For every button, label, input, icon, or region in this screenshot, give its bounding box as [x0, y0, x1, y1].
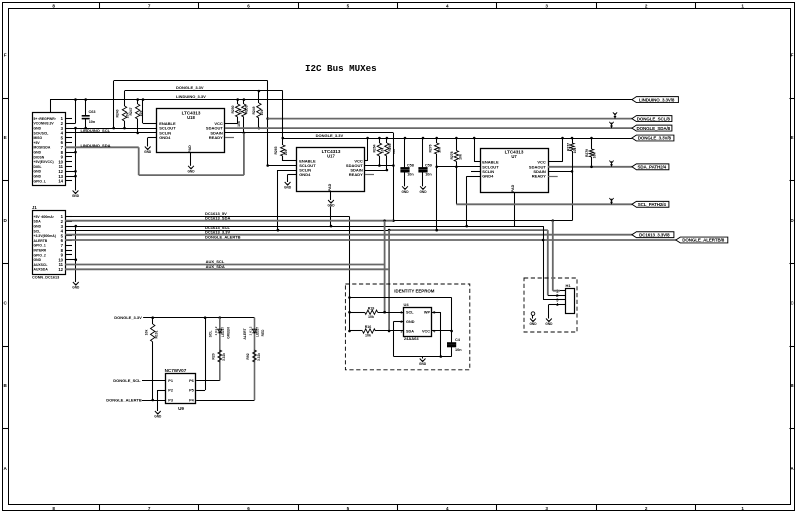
- svg-text:LED17: LED17: [221, 327, 225, 337]
- svg-text:SCK/SCL: SCK/SCL: [34, 131, 49, 135]
- wire U18 ENABLE to 3.3V: [143, 100, 158, 124]
- resistor R265: [385, 138, 396, 171]
- ground C58: [401, 186, 409, 194]
- svg-text:VCONN/3.3V: VCONN/3.3V: [34, 122, 55, 126]
- wire AUX_SCL vertical to EEPROM: [383, 221, 386, 314]
- svg-text:DONGLE_3.3V/8: DONGLE_3.3V/8: [638, 136, 672, 141]
- svg-text:R277: R277: [567, 143, 571, 151]
- svg-text:DONGLE_3.3V: DONGLE_3.3V: [316, 133, 344, 138]
- svg-text:MOSI/SDA: MOSI/SDA: [34, 146, 51, 150]
- wire U17 VCC up: [365, 138, 368, 161]
- wire U7 SCLIN stub: [471, 171, 480, 173]
- svg-text:2: 2: [645, 4, 648, 9]
- wire U4 GND pin2: [394, 321, 404, 356]
- svg-text:SDA: SDA: [406, 329, 414, 333]
- LED LED17 green chain: [209, 318, 231, 381]
- resistor R16: [350, 325, 404, 338]
- wire U18 SDAIN row to riser: [225, 133, 395, 223]
- flag LINDUINO_3.3V/8: [632, 97, 679, 103]
- wire U18 GND4: [148, 138, 158, 147]
- svg-text:DONGLE_ALERTB: DONGLE_ALERTB: [205, 235, 241, 240]
- wire U18 READY stub: [225, 137, 234, 139]
- svg-text:F: F: [4, 52, 7, 57]
- resistor R277: [567, 138, 578, 173]
- svg-text:+5V: +5V: [34, 141, 41, 145]
- svg-text:7: 7: [148, 506, 151, 511]
- svg-text:R263: R263: [274, 146, 278, 154]
- wire U18 PAD to ground: [190, 153, 192, 166]
- wire U17 SCLIN to DC1613_SCL: [277, 170, 297, 231]
- ground U17 PAD: [327, 200, 335, 208]
- ground U9 P2: [154, 411, 162, 419]
- ground testpoint: [529, 319, 537, 327]
- svg-text:3: 3: [545, 506, 548, 511]
- svg-text:GND4: GND4: [159, 135, 171, 140]
- svg-text:GND: GND: [154, 415, 162, 419]
- ground EEPROM: [419, 359, 427, 367]
- svg-text:10k: 10k: [392, 149, 396, 154]
- wire U17 PAD: [330, 191, 333, 227]
- flag DONGLE_SCL/8: [632, 116, 672, 122]
- svg-text:R20: R20: [212, 353, 216, 359]
- svg-text:R276: R276: [429, 144, 433, 152]
- svg-text:GND: GND: [419, 190, 427, 194]
- svg-text:GND: GND: [529, 322, 537, 326]
- wire U7 PAD down: [514, 192, 516, 226]
- svg-text:SDA: SDA: [34, 220, 42, 224]
- svg-text:E: E: [4, 135, 7, 140]
- svg-text:3.32k: 3.32k: [257, 353, 261, 361]
- wire Linduino pin2 to 3.3V: [72, 100, 76, 124]
- wire H1 pin1 from DC1613_SDA: [553, 221, 560, 291]
- resistor R264: [372, 138, 384, 167]
- svg-text:R19: R19: [368, 306, 375, 310]
- net DC1613_5V wire: [65, 217, 351, 332]
- resistor R251: [237, 100, 249, 135]
- net AUX_SDA wire: [65, 268, 389, 270]
- svg-text:DC1613_SDA: DC1613_SDA: [205, 215, 230, 220]
- svg-text:1 K1.2: 1 K1.2: [249, 326, 253, 335]
- svg-text:SCL: SCL: [34, 229, 41, 233]
- svg-text:PAD: PAD: [188, 145, 192, 153]
- svg-text:4: 4: [446, 506, 449, 511]
- flag DC1613_3.3V/8: [632, 232, 674, 238]
- svg-text:R249: R249: [252, 106, 256, 114]
- wire DONGLE_SCL into P1: [142, 380, 166, 382]
- svg-text:10k: 10k: [145, 330, 149, 336]
- ground U17 GND4: [284, 182, 292, 190]
- svg-text:3: 3: [545, 4, 548, 9]
- svg-text:LED27: LED27: [256, 327, 260, 337]
- svg-text:10n: 10n: [425, 172, 432, 176]
- svg-text:AUXSDA: AUXSDA: [34, 268, 49, 272]
- svg-text:AUX_SDA: AUX_SDA: [206, 264, 225, 269]
- flag DONGLE_ALERTB/8: [676, 237, 728, 243]
- svg-text:P6: P6: [189, 379, 194, 383]
- svg-text:READY: READY: [532, 174, 546, 179]
- svg-text:GND: GND: [34, 258, 42, 262]
- buffer U9 NC7WV07: [165, 368, 196, 411]
- svg-text:DIOSN: DIOSN: [34, 155, 45, 159]
- svg-text:10k: 10k: [260, 110, 264, 116]
- wire EEPROM top rail: [348, 298, 453, 343]
- net DONGLE_SDA wire: [225, 127, 632, 129]
- wire H1 pin2 from DC1613_SCL: [548, 295, 560, 297]
- svg-text:DONGLE_SDA/8: DONGLE_SDA/8: [637, 126, 671, 131]
- wire U18 VCC up: [225, 123, 238, 125]
- svg-text:10k: 10k: [380, 148, 384, 154]
- wire Linduino ground bus: [72, 127, 77, 191]
- ground U18 GND4: [144, 147, 152, 155]
- ground C59: [419, 186, 427, 194]
- svg-text:GND: GND: [34, 170, 42, 174]
- capacitor C63: [82, 98, 96, 129]
- flag SDA_PATH2/4: [632, 164, 669, 170]
- svg-text:DONGLE_3.3V: DONGLE_3.3V: [114, 315, 142, 320]
- ground H1 pin4: [545, 319, 553, 327]
- ground U18 PAD: [187, 166, 195, 174]
- svg-text:R279: R279: [585, 149, 589, 157]
- svg-text:GND: GND: [34, 225, 42, 229]
- net DC1613_3.3V wire: [65, 234, 632, 236]
- svg-text:CONN_DC1613: CONN_DC1613: [32, 275, 59, 279]
- svg-text:GND4: GND4: [482, 174, 494, 179]
- svg-text:4: 4: [446, 4, 449, 9]
- svg-text:GND: GND: [72, 286, 80, 290]
- flag DONGLE_3.3V/8: [632, 135, 674, 141]
- svg-text:LINDUINO_3.3V/8: LINDUINO_3.3V/8: [639, 97, 675, 102]
- wire LED1 chain to P6: [196, 380, 220, 382]
- resistor R240: [115, 91, 129, 129]
- arrow DONGLE_SCL: [614, 113, 616, 119]
- svg-text:DC1613_3.3V/8: DC1613_3.3V/8: [639, 232, 670, 237]
- svg-text:12: 12: [58, 267, 63, 272]
- wire AUX_SDA vertical to EEPROM: [388, 230, 391, 332]
- wire DONGLE_SCL bridge over U18: [112, 81, 269, 167]
- dashed box IDENTITY EEPROM: [345, 284, 469, 370]
- svg-text:READY: READY: [209, 135, 223, 140]
- svg-text:GND: GND: [406, 320, 415, 324]
- svg-text:24AA64: 24AA64: [404, 336, 419, 341]
- ground below J1: [72, 282, 80, 290]
- svg-text:READY: READY: [349, 172, 363, 177]
- svg-text:SDA_PATH2/4: SDA_PATH2/4: [638, 164, 667, 169]
- svg-text:GND: GND: [401, 190, 409, 194]
- net LINDUINO_3.3V rail: [50, 98, 632, 101]
- svg-text:8: 8: [52, 4, 55, 9]
- svg-text:1: 1: [741, 4, 744, 9]
- svg-text:C63: C63: [89, 110, 96, 114]
- wire U7 GND4 to ground line: [465, 176, 480, 227]
- resistor R247: [129, 100, 143, 135]
- svg-text:LINDUINO_SCL: LINDUINO_SCL: [81, 128, 111, 133]
- svg-text:2: 2: [645, 506, 648, 511]
- wire U7 SCLOUT to DC1613_SCL: [435, 166, 480, 169]
- svg-text:14: 14: [58, 179, 63, 184]
- resistor R249: [252, 91, 264, 129]
- testpoint circle to ground: [531, 312, 535, 319]
- svg-text:5: 5: [347, 4, 350, 9]
- svg-text:DONGLE_ALERTB/8: DONGLE_ALERTB/8: [682, 238, 725, 243]
- svg-text:7: 7: [148, 4, 151, 9]
- svg-text:P5: P5: [189, 389, 194, 393]
- svg-text:F: F: [791, 52, 794, 57]
- svg-text:+5V ‹600mA›: +5V ‹600mA›: [34, 215, 54, 219]
- connector J1 CONN_DC1613: [32, 205, 72, 280]
- svg-text:NC7WV07: NC7WV07: [165, 368, 187, 373]
- svg-text:E: E: [790, 135, 793, 140]
- net GND link wire: [65, 226, 543, 228]
- wire U4 VCC: [432, 330, 452, 332]
- wire U17 SCLOUT: [268, 165, 297, 167]
- svg-text:6: 6: [247, 506, 250, 511]
- svg-text:C58: C58: [407, 164, 414, 168]
- svg-text:10k: 10k: [237, 121, 241, 127]
- svg-text:GND: GND: [34, 151, 42, 155]
- resistor R276: [429, 138, 442, 231]
- svg-text:INTERR: INTERR: [34, 249, 47, 253]
- net DONGLE_3.3V upper wire: [125, 90, 283, 93]
- net DC1613_SCL wire: [65, 229, 548, 295]
- wire DONGLE_ALERTB into P3: [142, 400, 166, 402]
- svg-text:10n: 10n: [455, 348, 462, 352]
- svg-text:H1: H1: [566, 283, 572, 288]
- wire U17 READY stub: [365, 174, 374, 176]
- resistor R20: [212, 350, 227, 362]
- svg-text:U4: U4: [404, 302, 410, 307]
- svg-text:IDENTITY EEPROM: IDENTITY EEPROM: [394, 289, 435, 294]
- svg-text:R92: R92: [246, 353, 250, 359]
- svg-text:DONGLE_SCL/8: DONGLE_SCL/8: [637, 116, 671, 121]
- wire row SCLOUT U18: [65, 128, 157, 130]
- svg-text:10n: 10n: [407, 172, 414, 176]
- net DONGLE_3.3V rail: [283, 137, 632, 140]
- svg-text:5: 5: [347, 506, 350, 511]
- svg-text:10k: 10k: [592, 153, 596, 159]
- dashed box H1: [524, 278, 577, 332]
- svg-text:DC1613_3.3V: DC1613_3.3V: [205, 229, 230, 234]
- svg-text:5+ ‹REGPWR›: 5+ ‹REGPWR›: [34, 117, 56, 121]
- wire LED2 chain to P4: [196, 400, 254, 402]
- svg-text:LINDUINO_SDA: LINDUINO_SDA: [81, 143, 111, 148]
- net DONGLE_ALERTB wire: [65, 239, 676, 242]
- svg-text:R264: R264: [372, 144, 376, 152]
- resistor R263: [274, 145, 288, 162]
- svg-text:GREEN: GREEN: [227, 327, 231, 339]
- svg-text:GND: GND: [419, 362, 427, 366]
- svg-text:R247: R247: [129, 107, 133, 115]
- svg-text:DONGLE_3.3V: DONGLE_3.3V: [176, 85, 204, 90]
- svg-text:GND: GND: [34, 127, 42, 131]
- net DONGLE_SCL wire: [268, 118, 632, 120]
- wire H1 pin3: [543, 226, 560, 300]
- svg-text:8: 8: [52, 506, 55, 511]
- svg-text:DONGLE_ALERTB: DONGLE_ALERTB: [106, 398, 142, 403]
- wire EEPROM ground rail: [394, 356, 452, 358]
- svg-text:10n: 10n: [89, 120, 96, 124]
- net LINDUINO_SDA wire: [65, 133, 244, 175]
- svg-text:10k: 10k: [365, 334, 371, 338]
- svg-text:ALERTB: ALERTB: [34, 239, 48, 243]
- svg-text:GND: GND: [284, 186, 292, 190]
- capacitor C58: [400, 138, 414, 186]
- svg-text:GND: GND: [327, 204, 335, 208]
- svg-text:+3.3V(600mA): +3.3V(600mA): [34, 234, 56, 238]
- svg-text:SCL_PATH2/4: SCL_PATH2/4: [638, 202, 667, 207]
- wire H1 pin4 to ground: [549, 304, 561, 318]
- svg-text:GND: GND: [187, 169, 195, 173]
- ground below Linduino connector: [72, 191, 80, 199]
- wire U17 SDAOUT to SDA riser: [365, 164, 395, 167]
- wire Linduino 3.3V drop to connector top: [50, 100, 52, 113]
- svg-text:GND: GND: [144, 150, 152, 154]
- svg-text:U18: U18: [187, 115, 195, 120]
- svg-text:VCC: VCC: [422, 329, 430, 333]
- svg-text:I2C Bus MUXes: I2C Bus MUXes: [305, 63, 377, 74]
- net DONGLE_3.3V lower rail: [143, 316, 254, 319]
- svg-text:P2: P2: [168, 389, 173, 393]
- resistor R19: [350, 306, 404, 318]
- LED LED27 red chain: [243, 318, 265, 400]
- svg-text:DONGLE_SCL: DONGLE_SCL: [113, 378, 141, 383]
- svg-text:C59: C59: [425, 164, 432, 168]
- capacitor C59: [418, 138, 432, 186]
- svg-text:P3: P3: [168, 399, 173, 403]
- wire U7 READY stub: [548, 176, 558, 178]
- svg-text:10k: 10k: [573, 148, 577, 154]
- wire J1 ground bus: [72, 225, 77, 282]
- svg-text:1: 1: [741, 506, 744, 511]
- svg-text:1 K1.2: 1 K1.2: [214, 326, 218, 335]
- svg-text:6: 6: [247, 4, 250, 9]
- svg-text:SCL: SCL: [209, 331, 213, 338]
- svg-text:R191: R191: [154, 330, 158, 338]
- svg-text:AUXSCL: AUXSCL: [34, 263, 48, 267]
- svg-text:DIGL: DIGL: [34, 165, 42, 169]
- svg-text:GPIO_2: GPIO_2: [34, 253, 46, 257]
- resistor R278: [450, 138, 463, 204]
- arrow SDA_PATH2: [611, 161, 613, 167]
- svg-text:GND: GND: [34, 175, 42, 179]
- resistor R279: [585, 138, 597, 167]
- wire U17 SDAIN: [365, 170, 387, 172]
- arrow DONGLE_SDA: [611, 123, 613, 129]
- svg-text:R278: R278: [450, 151, 454, 159]
- resistor R191: [145, 318, 159, 402]
- svg-text:J1: J1: [32, 205, 37, 210]
- wire U7 SDAIN loop: [548, 171, 573, 220]
- svg-text:10k: 10k: [284, 150, 288, 156]
- flag SCL_PATH2/4: [632, 201, 669, 207]
- svg-text:P1: P1: [168, 379, 173, 383]
- svg-text:PAD: PAD: [511, 184, 515, 192]
- svg-text:10k: 10k: [438, 147, 442, 153]
- svg-text:U7: U7: [511, 154, 517, 159]
- net SDA_PATH2 wire: [548, 166, 632, 169]
- svg-text:3.32k: 3.32k: [222, 353, 226, 361]
- svg-text:+5V(EXVCC): +5V(EXVCC): [34, 160, 54, 164]
- wire U4 WP: [432, 312, 442, 358]
- svg-text:R251: R251: [245, 105, 249, 113]
- svg-text:U17: U17: [327, 154, 335, 159]
- svg-text:GND4: GND4: [299, 172, 311, 177]
- net AUX_SCL wire: [65, 264, 385, 266]
- chip U4 24AA64: [400, 302, 436, 341]
- svg-text:10k: 10k: [368, 315, 374, 319]
- flag DONGLE_SDA/8: [632, 125, 672, 131]
- arrow SCL_PATH2: [611, 199, 613, 205]
- svg-text:10k: 10k: [459, 154, 463, 160]
- resistor R250: [231, 100, 242, 124]
- svg-text:WP: WP: [424, 311, 431, 315]
- wire U7 VCC up: [548, 138, 563, 162]
- svg-text:R250: R250: [231, 105, 235, 113]
- wire row SCLIN LINDUINO_SCL: [65, 132, 157, 134]
- net SCL_PATH2 wire: [456, 203, 632, 205]
- svg-text:RED: RED: [261, 329, 265, 336]
- wire P2 to ground: [158, 390, 166, 411]
- op-amp U18 LTC4313: [157, 109, 225, 153]
- svg-text:ALERT: ALERT: [243, 327, 247, 339]
- svg-text:GPIO_L: GPIO_L: [34, 179, 46, 183]
- op-amp U17 LTC4313: [297, 148, 365, 192]
- svg-text:R240: R240: [115, 109, 119, 117]
- wire U7 ENABLE: [474, 138, 480, 162]
- svg-text:U9: U9: [178, 406, 184, 411]
- connector J-Linduino 14-pin: [33, 113, 73, 186]
- svg-text:GND: GND: [545, 322, 553, 326]
- svg-text:GND: GND: [72, 194, 80, 198]
- svg-text:R16: R16: [365, 325, 372, 329]
- svg-text:SCL: SCL: [406, 311, 414, 315]
- wire EEPROM gnd stub: [422, 357, 424, 359]
- wire U17 enable from DONGLE_3.3V: [282, 91, 298, 161]
- capacitor C4: [447, 338, 462, 357]
- net DC1613_SDA wire: [65, 219, 572, 222]
- svg-text:PAD: PAD: [328, 183, 332, 191]
- svg-text:MISO: MISO: [34, 136, 43, 140]
- wire P5 to rail: [196, 318, 205, 391]
- svg-text:LINDUINO_3.3V: LINDUINO_3.3V: [176, 94, 206, 99]
- svg-text:GPIO_1: GPIO_1: [34, 244, 46, 248]
- op-amp U7 LTC4313: [481, 149, 549, 193]
- wire U17 GND4: [288, 175, 298, 183]
- connector H1 4-pin: [556, 283, 574, 314]
- resistor R92: [246, 350, 261, 362]
